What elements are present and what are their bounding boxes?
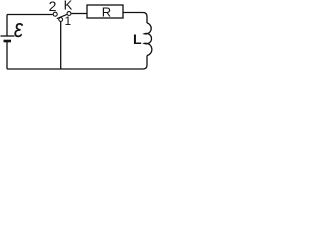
svg-text:R: R <box>102 4 111 19</box>
svg-text:K: K <box>64 0 73 13</box>
svg-text:ε: ε <box>14 14 24 43</box>
svg-text:1: 1 <box>64 14 71 28</box>
svg-text:2: 2 <box>49 0 57 14</box>
svg-text:L: L <box>133 31 142 47</box>
